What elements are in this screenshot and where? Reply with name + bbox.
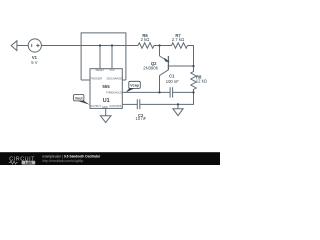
node: R6/R7/emitter junction [158,44,160,46]
svg-text:http://circuitlab.com/c/4g66p: http://circuitlab.com/c/4g66p [42,159,83,163]
svg-text:555: 555 [102,84,110,89]
wire: R8 bottom down and left along ground net to C2 [140,92,194,104]
svg-text:100 nF: 100 nF [166,79,179,84]
svg-text:10 nF: 10 nF [136,116,147,121]
wire: rail from R6 to R7 [154,45,172,47]
node: collector/THRESHOLD/C1 junction [158,91,160,93]
node flag Vout [74,95,90,105]
svg-text:Vcap: Vcap [130,84,140,88]
svg-text:C1: C1 [169,74,175,79]
wire: C1 right plate to R8 bottom node [173,91,194,93]
wire: rail down to VCC pin [111,46,113,69]
wire: C2 left plate to 555 CONTROL pin [122,103,137,105]
wire: emitter up to rail junction [159,46,161,57]
watermark footer bar [0,152,220,165]
svg-text:VCC: VCC [109,68,115,72]
svg-text:GND: GND [102,105,108,109]
resistor R8 [191,66,196,92]
wire: collector down to THRESHOLD net [159,76,161,93]
capacitor C2 [137,99,140,109]
resistor R7 [172,43,188,48]
ground (right, on C2/R8 ground net) [173,104,183,115]
node: base/R7/R8 junction [192,65,194,67]
node: rail-VCC junction [111,44,113,46]
svg-text:THRESHOLD: THRESHOLD [106,91,122,95]
svg-text:5 V: 5 V [31,60,37,65]
label C1 100 nF [166,74,179,84]
svg-text:Vout: Vout [75,97,84,101]
svg-text:12 kΩ: 12 kΩ [196,79,207,84]
node: rail-RESET junction [99,44,101,46]
wire: loop right end into DISCHARGE pin [122,79,126,81]
node: ground tap on bottom wire [177,103,179,105]
wire: rail down to RESET pin [99,46,101,69]
svg-text:RESET: RESET [96,68,105,72]
label Q2 2N3906 [143,61,158,71]
svg-text:2.7 kΩ: 2.7 kΩ [172,37,184,42]
svg-text:2N3906: 2N3906 [143,66,158,71]
svg-text:OUTPUT: OUTPUT [90,104,101,108]
wire: +5V rail from V1 to R6 [41,45,138,47]
wire: THRESHOLD to C1 left plate [122,91,170,93]
wire: Q2 base to R7/R8 node [168,65,193,67]
voltage source V1 [28,39,41,52]
label C2 10 nF [136,113,147,121]
svg-text:LAB: LAB [25,161,33,165]
svg-text:TRIGGER: TRIGGER [90,77,102,81]
node flag Vcap [126,81,141,92]
svg-text:CONTROL: CONTROL [109,104,122,108]
wire: R7 right end, corner down to base node [188,46,194,67]
resistor R6 [138,43,154,48]
label R8 12 kOhm [196,74,207,83]
svg-text:DISCHARGE: DISCHARGE [107,77,123,81]
transistor Q2 (PNP 2N3906) [160,56,169,76]
ground (under 555 GND pin) [100,108,111,122]
wire: loop left end into TRIGGER pin [81,79,90,81]
label R6 2 kOhm [141,33,150,42]
label R7 2.7 kOhm [172,33,184,42]
label V1 5 V [31,55,37,65]
svg-text:U1: U1 [103,98,110,104]
capacitor C1 [170,87,173,97]
node: C1/R8 ground-side junction [192,91,194,93]
label U1 555 pin names [90,68,122,109]
svg-text:2 kΩ: 2 kΩ [141,37,150,42]
svg-text:exampleuser | 9.6 Sawtooth Osc: exampleuser | 9.6 Sawtooth Oscillator [42,155,101,159]
ground (left, at V1 negative terminal) [11,41,28,51]
op-amp/IC U1 555 timer box [90,69,122,109]
wire: top loop TRIGGER to DISCHARGE [81,33,126,80]
